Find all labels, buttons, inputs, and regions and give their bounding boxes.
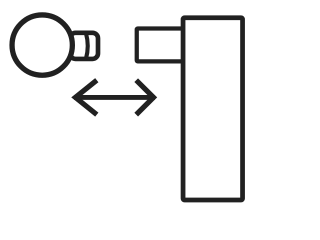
double arrow shaft (74, 95, 155, 100)
stem divider (86, 33, 88, 59)
double arrow left head (75, 80, 96, 114)
door panel tall rectangle (183, 18, 243, 200)
double arrow right head (136, 80, 153, 114)
latch plate small rectangle (137, 29, 184, 62)
knob circle (12, 15, 72, 75)
knob stem (70, 33, 98, 59)
